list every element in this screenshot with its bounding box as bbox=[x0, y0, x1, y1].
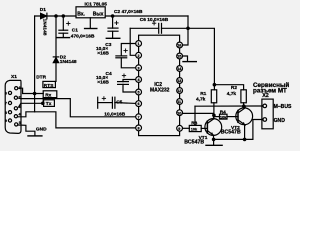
node dot +5V junction bbox=[186, 27, 190, 31]
node dot Tx entry bbox=[41, 102, 45, 106]
svg-text:11: 11 bbox=[177, 100, 181, 104]
svg-text:Вых: Вых bbox=[93, 12, 104, 18]
ground bar under C1 bbox=[57, 37, 70, 39]
wire R1 bottom to VT1 collector bbox=[213, 103, 215, 119]
svg-text:X2: X2 bbox=[262, 93, 269, 99]
wire Rx box corner drop bbox=[42, 98, 44, 104]
svg-text:5: 5 bbox=[19, 121, 21, 125]
svg-text:X1: X1 bbox=[11, 74, 17, 80]
Rx flag box bbox=[43, 91, 57, 98]
ground bar under C2 bbox=[106, 37, 120, 39]
diode D2 bbox=[53, 57, 58, 63]
svg-text:BC547B: BC547B bbox=[221, 130, 241, 136]
IC2 pin9 stub to R3 bbox=[183, 127, 190, 129]
svg-text:GND: GND bbox=[36, 127, 47, 133]
wire R2 bottom to M-BUS bbox=[243, 103, 245, 106]
ground bar X1 bbox=[28, 135, 42, 137]
svg-text:C2 47,0×16В: C2 47,0×16В bbox=[114, 9, 143, 15]
svg-text:IC1 78L05: IC1 78L05 bbox=[85, 2, 108, 8]
svg-text:12: 12 bbox=[177, 89, 181, 93]
IC2 pin 5 bbox=[136, 89, 142, 95]
svg-text:R3: R3 bbox=[191, 121, 197, 127]
wire R4 right lead bbox=[227, 116, 238, 118]
wire pin3 to Tx box bbox=[19, 103, 44, 107]
X1 pin 2 circle bbox=[14, 96, 17, 99]
X1 pin 4 circle bbox=[14, 115, 17, 118]
wire R3 riser bbox=[194, 106, 196, 125]
IC2 pin 16 bbox=[177, 42, 183, 48]
IC2 pin 6 bbox=[136, 101, 142, 107]
svg-text:разъем МТ: разъем МТ bbox=[253, 87, 287, 94]
svg-text:1: 1 bbox=[138, 42, 140, 46]
svg-text:16: 16 bbox=[177, 44, 181, 48]
svg-text:BC547B: BC547B bbox=[184, 140, 204, 146]
IC2 MAX232 box bbox=[139, 35, 180, 135]
node dot VT2 emitter gnd bbox=[243, 138, 247, 142]
X1 pin 9 circle bbox=[8, 119, 11, 122]
wire DTR riser bbox=[34, 16, 36, 112]
wire RTS riser with D2 bbox=[55, 16, 57, 81]
resistor R1 bbox=[211, 90, 216, 103]
ground wire emitters bbox=[214, 120, 262, 140]
wire +U to R rail bbox=[188, 28, 214, 84]
X1 DB9 connector body bbox=[5, 80, 21, 133]
svg-text:6: 6 bbox=[5, 92, 7, 96]
node dot C2 tap bbox=[111, 14, 115, 18]
IC2 pin15 ground stub bbox=[183, 56, 188, 61]
svg-text:10k: 10k bbox=[191, 128, 198, 132]
wire pin1 to Rx box bbox=[18, 88, 43, 93]
svg-text:×16В: ×16В bbox=[97, 51, 109, 57]
IC1 ground pin bbox=[89, 18, 91, 28]
wire +5V down right bbox=[183, 16, 188, 45]
svg-text:C5: C5 bbox=[116, 100, 122, 106]
IC2 pin 4 bbox=[136, 77, 142, 83]
svg-text:1N4148: 1N4148 bbox=[42, 19, 48, 36]
node dot R rail split bbox=[213, 83, 217, 87]
svg-text:Тx: Тx bbox=[46, 101, 52, 107]
svg-text:R2: R2 bbox=[231, 85, 237, 91]
diode D1 bbox=[41, 13, 47, 19]
node dot DTR cross bbox=[33, 92, 37, 96]
transistor VT1 bbox=[205, 115, 222, 139]
ground stem bbox=[213, 139, 215, 145]
resistor R4 bbox=[220, 114, 228, 119]
svg-text:2: 2 bbox=[138, 54, 140, 58]
wire +5V from IC1 out to right corner bbox=[105, 15, 188, 17]
Tx flag box bbox=[44, 100, 55, 107]
IC2 pin 2 bbox=[136, 52, 142, 58]
IC2 pin 7 bbox=[136, 114, 142, 120]
svg-text:6: 6 bbox=[138, 102, 140, 106]
C5 plus sign bbox=[102, 97, 105, 100]
svg-text:7: 7 bbox=[138, 115, 140, 119]
wire pin4 DTR bbox=[18, 112, 35, 117]
svg-text:3: 3 bbox=[138, 66, 140, 70]
node dot M-BUS junction bbox=[242, 104, 246, 108]
X2 connector box bbox=[262, 99, 273, 129]
svg-text:10,0×16В: 10,0×16В bbox=[104, 111, 125, 117]
svg-text:D1: D1 bbox=[40, 7, 46, 13]
node dot C1 tap bbox=[62, 14, 66, 18]
IC2 pin 11 bbox=[177, 99, 183, 105]
svg-text:13: 13 bbox=[177, 79, 181, 83]
node dot T2IN bbox=[212, 114, 216, 118]
X1 pin 7 circle bbox=[8, 101, 11, 104]
svg-text:RTS: RTS bbox=[44, 83, 54, 89]
IC2 pin 3 bbox=[136, 65, 142, 71]
IC2 pin 15 bbox=[177, 53, 183, 59]
X1 pin 3 circle bbox=[14, 107, 17, 110]
node dot D2 tap bbox=[54, 14, 58, 18]
capacitor C5 bbox=[98, 97, 136, 108]
svg-text:Вх.: Вх. bbox=[77, 12, 85, 18]
IC2 pin 14 bbox=[177, 66, 183, 72]
wire R1 top bbox=[213, 85, 215, 90]
svg-text:8: 8 bbox=[138, 127, 140, 131]
svg-text:4,7k: 4,7k bbox=[196, 97, 206, 103]
svg-text:470,0×16В: 470,0×16В bbox=[71, 34, 95, 40]
IC1 78L05 box bbox=[76, 7, 105, 18]
wire top +U rail left segment bbox=[35, 15, 76, 17]
capacitor C1 bbox=[59, 16, 68, 37]
svg-text:Rx: Rx bbox=[45, 93, 51, 99]
svg-text:7: 7 bbox=[5, 102, 7, 106]
svg-text:1N4148: 1N4148 bbox=[60, 59, 77, 65]
X2 pin M-BUS circle bbox=[263, 104, 267, 108]
ground bar pin15 bbox=[183, 61, 196, 63]
IC2 pin 1 bbox=[136, 41, 142, 47]
node dot VT1 emitter gnd bbox=[212, 138, 216, 142]
wire C6 to pin2 V+ bbox=[130, 28, 135, 55]
svg-text:4,7k: 4,7k bbox=[227, 91, 237, 97]
wire pin2 bus to MAX232 pin7 bbox=[18, 98, 136, 117]
IC2 pin 9 bbox=[177, 125, 183, 131]
svg-text:10k: 10k bbox=[220, 116, 227, 120]
wire rail to R2 bbox=[214, 85, 243, 90]
ground bar under IC1 bbox=[85, 28, 97, 30]
X1 pin 6 circle bbox=[8, 91, 11, 94]
resistor R2 bbox=[241, 90, 246, 103]
svg-text:×16В: ×16В bbox=[97, 80, 109, 86]
svg-text:MAX232: MAX232 bbox=[150, 88, 170, 94]
capacitor C2 bbox=[108, 16, 118, 38]
svg-text:M–BUS: M–BUS bbox=[274, 104, 292, 110]
svg-text:DTR: DTR bbox=[36, 75, 46, 81]
X1 pin 8 circle bbox=[8, 111, 11, 114]
M-BUS line bbox=[195, 105, 262, 107]
transistor VT2 bbox=[236, 106, 253, 139]
C2 plus sign bbox=[115, 21, 118, 24]
svg-text:R1: R1 bbox=[200, 91, 206, 97]
capacitor C6 bbox=[130, 23, 188, 33]
IC2 pin 8 bbox=[136, 125, 142, 131]
svg-text:9: 9 bbox=[178, 127, 180, 131]
svg-text:GND: GND bbox=[274, 118, 286, 124]
svg-text:8: 8 bbox=[5, 111, 7, 115]
RTS flag box bbox=[43, 81, 56, 87]
svg-text:C1: C1 bbox=[72, 27, 78, 33]
C4 plus sign bbox=[122, 74, 125, 77]
IC2 pin 13 bbox=[177, 78, 183, 84]
X1 pin 5 circle bbox=[15, 123, 18, 126]
IC2 pin 10 bbox=[177, 110, 183, 116]
svg-text:15: 15 bbox=[177, 55, 181, 59]
wire Tx bus to MAX232 pin8 bbox=[35, 112, 136, 128]
svg-text:9: 9 bbox=[5, 119, 7, 123]
X2 pin GND circle bbox=[263, 118, 267, 122]
IC2 pin 12 bbox=[177, 88, 183, 94]
capacitor C4 bbox=[118, 80, 136, 93]
IC2 pin10 stub bbox=[183, 112, 214, 114]
resistor R3 bbox=[189, 125, 201, 131]
X1 pin 1 circle bbox=[15, 87, 18, 90]
C1 plus sign bbox=[67, 22, 70, 25]
C3 plus sign bbox=[124, 49, 127, 52]
wire pin5 GND bbox=[18, 125, 35, 135]
svg-text:R4: R4 bbox=[220, 109, 226, 115]
ground bar VT1 bbox=[206, 144, 222, 146]
wire R4 left lead bbox=[214, 116, 220, 118]
wire R3 to VT1 base bbox=[201, 127, 207, 129]
capacitor C3 bbox=[116, 44, 136, 68]
C6 plus sign bbox=[152, 22, 155, 25]
svg-text:5: 5 bbox=[138, 91, 140, 95]
svg-text:10: 10 bbox=[177, 111, 181, 115]
